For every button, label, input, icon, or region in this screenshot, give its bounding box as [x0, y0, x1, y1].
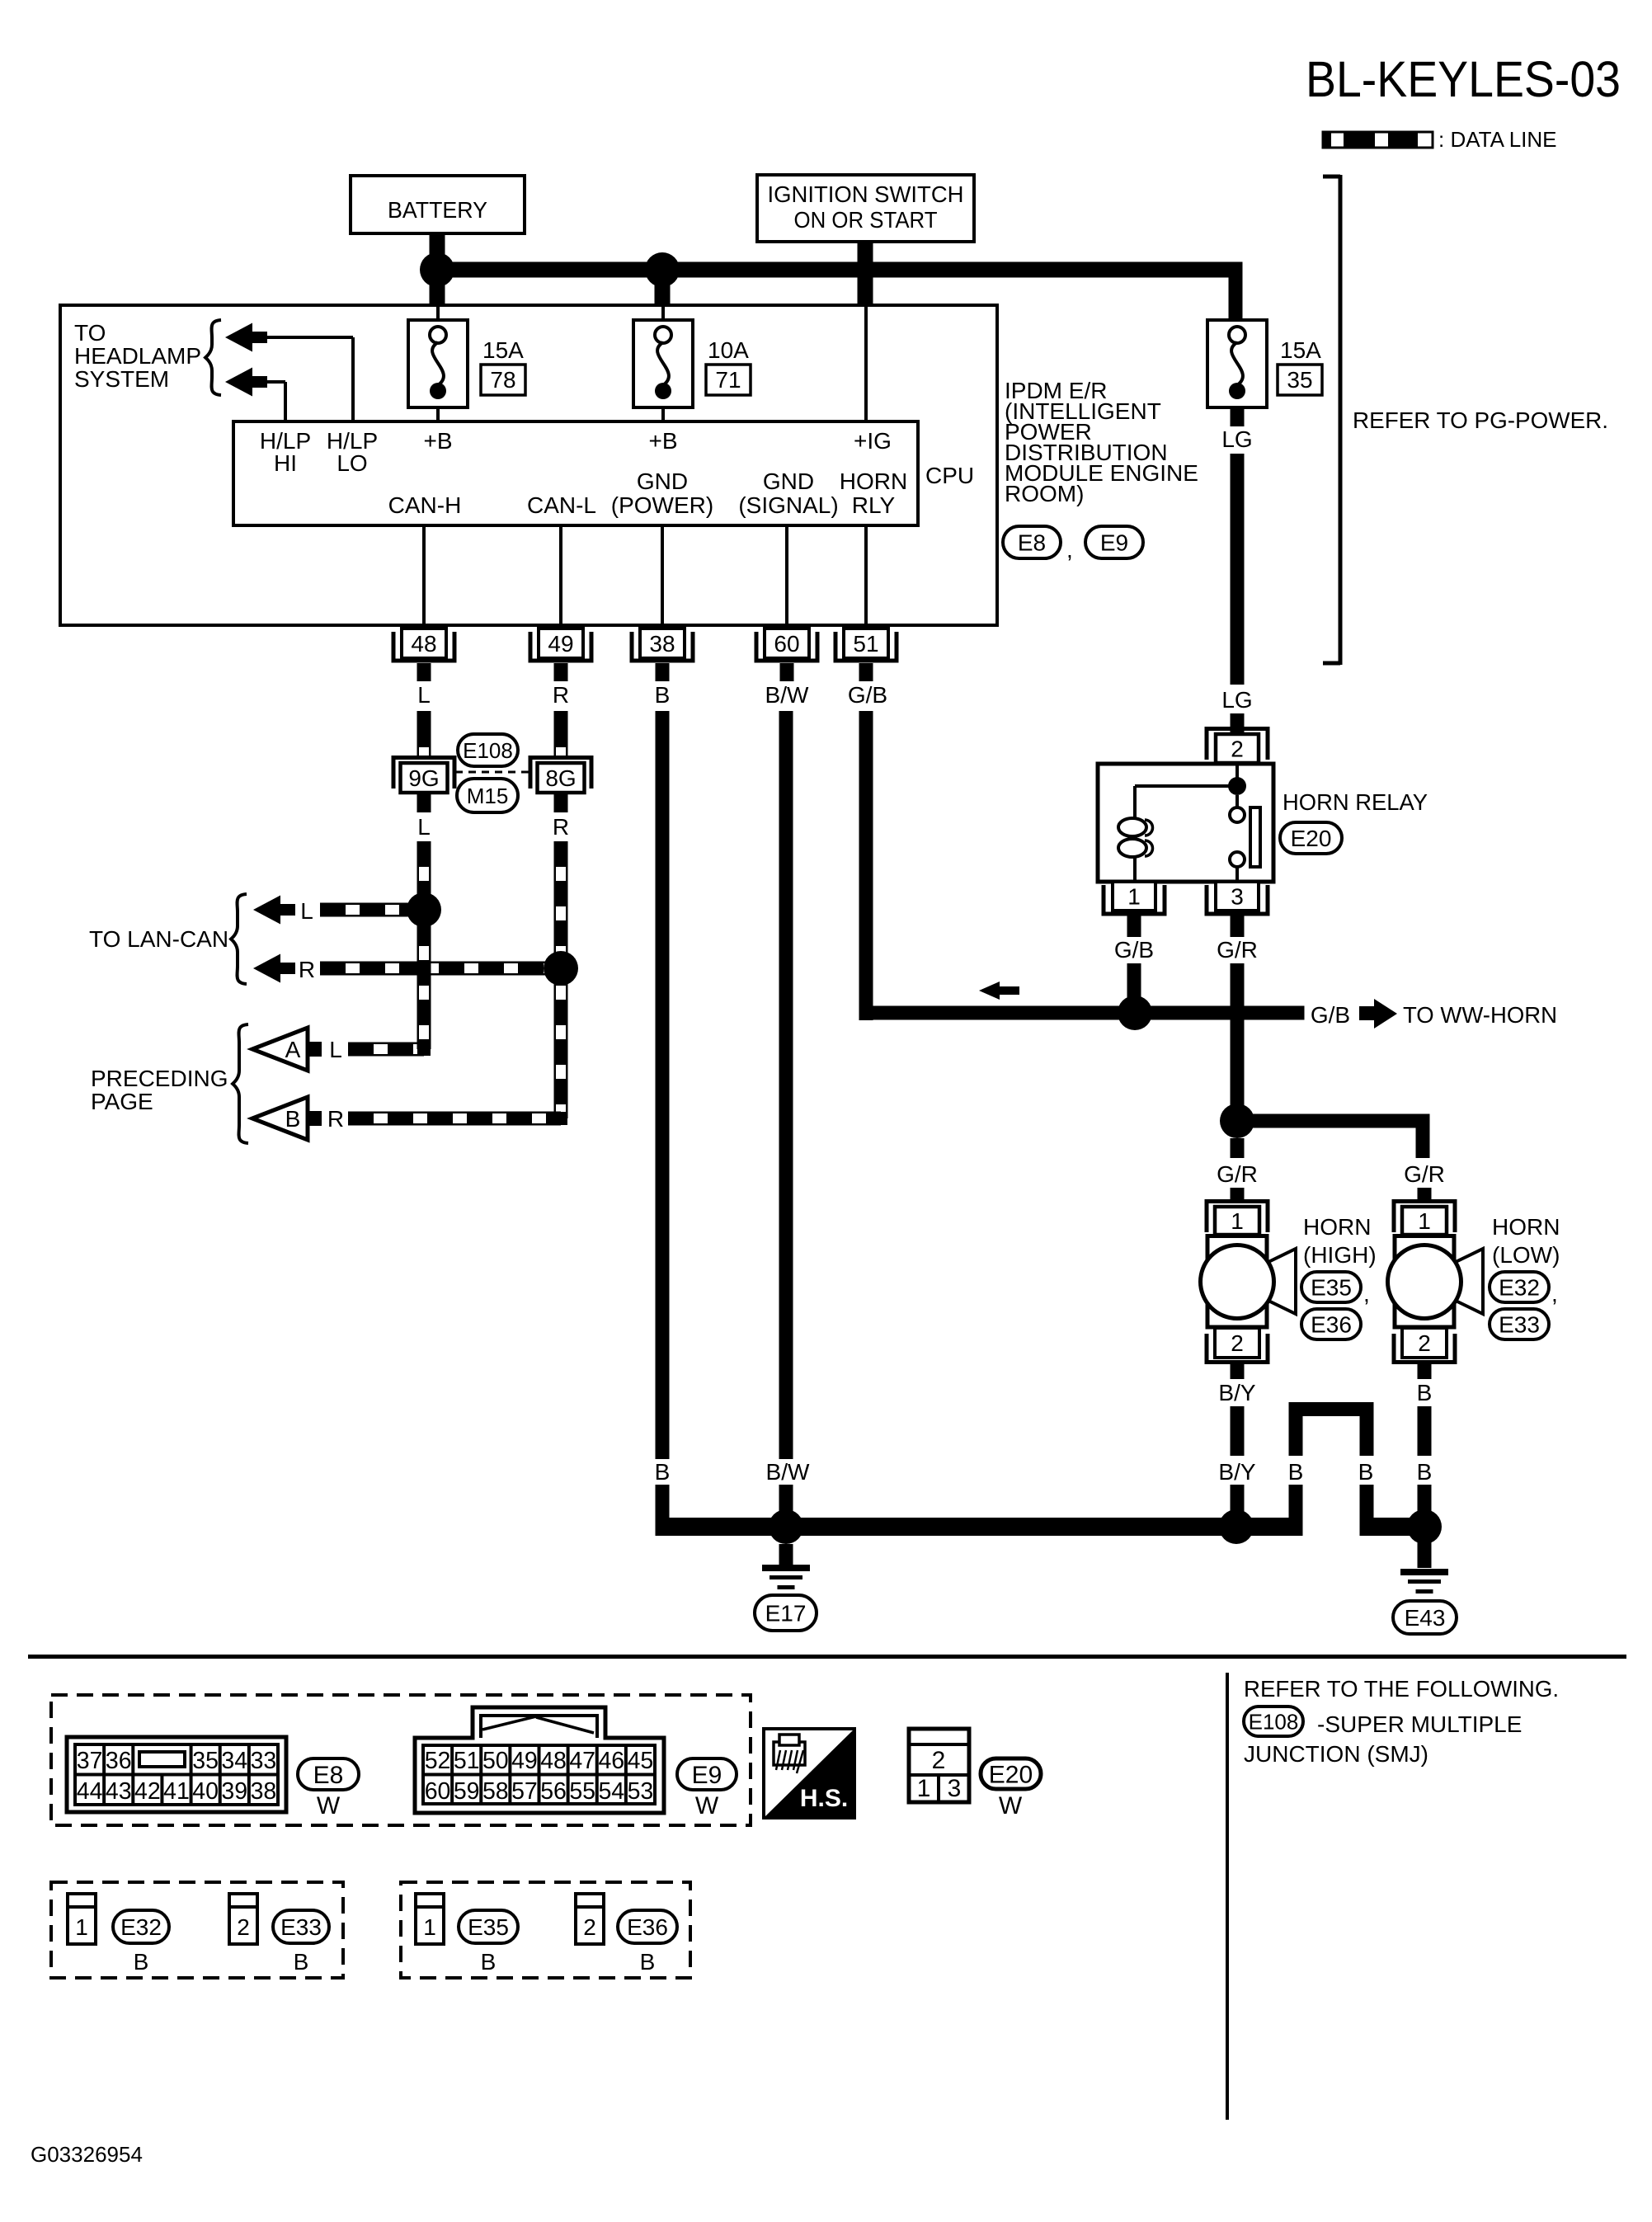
svg-text:R: R [553, 814, 569, 840]
svg-text:L: L [417, 682, 431, 708]
svg-text:53: 53 [628, 1778, 654, 1805]
svg-text:+B: +B [648, 428, 677, 454]
svg-text:+IG: +IG [854, 428, 892, 454]
svg-text:CPU: CPU [925, 463, 974, 488]
svg-text:LG: LG [1221, 687, 1252, 713]
svg-text:GND: GND [637, 468, 688, 494]
svg-text:B: B [655, 682, 671, 708]
svg-text:HEADLAMP: HEADLAMP [74, 343, 201, 369]
svg-text:SYSTEM: SYSTEM [74, 366, 169, 392]
svg-text:: DATA LINE: : DATA LINE [1438, 127, 1557, 152]
svg-text:G/R: G/R [1404, 1161, 1445, 1187]
svg-text:B: B [640, 1949, 656, 1975]
svg-text:50: 50 [482, 1748, 509, 1774]
svg-text:34: 34 [221, 1748, 247, 1774]
svg-text:HI: HI [274, 450, 297, 476]
svg-text:49: 49 [511, 1748, 538, 1774]
svg-text:JUNCTION (SMJ): JUNCTION (SMJ) [1244, 1741, 1428, 1767]
svg-text:HORN: HORN [1492, 1214, 1560, 1240]
svg-text:43: 43 [106, 1778, 132, 1805]
svg-text:A: A [285, 1037, 301, 1062]
svg-text:59: 59 [454, 1778, 480, 1805]
svg-text:15A: 15A [482, 337, 524, 363]
svg-text:33: 33 [251, 1748, 277, 1774]
svg-text:H.S.: H.S. [800, 1785, 848, 1812]
svg-text:45: 45 [628, 1748, 654, 1774]
svg-text:2: 2 [1418, 1330, 1431, 1356]
svg-text:E8: E8 [313, 1762, 344, 1789]
svg-text:(POWER): (POWER) [611, 492, 713, 518]
svg-text:3: 3 [1231, 884, 1244, 910]
svg-text:51: 51 [454, 1748, 480, 1774]
svg-text:G/B: G/B [848, 682, 887, 708]
svg-text:40: 40 [192, 1778, 219, 1805]
svg-text:CAN-H: CAN-H [388, 492, 462, 518]
svg-text:2: 2 [932, 1747, 946, 1774]
svg-text:37: 37 [77, 1748, 103, 1774]
svg-text:1: 1 [423, 1914, 436, 1940]
svg-text:8G: 8G [545, 765, 576, 791]
svg-text:E20: E20 [1291, 826, 1332, 851]
svg-text:35: 35 [1287, 367, 1312, 393]
svg-text:(LOW): (LOW) [1492, 1242, 1560, 1268]
svg-text:GND: GND [763, 468, 814, 494]
svg-text:G03326954: G03326954 [31, 2142, 143, 2167]
svg-text:E20: E20 [989, 1761, 1033, 1788]
svg-text:1: 1 [1418, 1208, 1431, 1234]
svg-text:55: 55 [569, 1778, 595, 1805]
svg-text:B/W: B/W [766, 1459, 810, 1485]
svg-text:(HIGH): (HIGH) [1303, 1242, 1377, 1268]
svg-text:52: 52 [425, 1748, 451, 1774]
svg-text:47: 47 [569, 1748, 595, 1774]
svg-text:2: 2 [583, 1914, 596, 1940]
svg-text:W: W [317, 1792, 341, 1819]
svg-text:W: W [695, 1792, 719, 1819]
svg-text:,: , [1363, 1281, 1370, 1306]
svg-text:57: 57 [511, 1778, 538, 1805]
svg-text:56: 56 [540, 1778, 567, 1805]
svg-text:38: 38 [649, 631, 675, 657]
svg-text:L: L [329, 1037, 342, 1062]
svg-text:HORN: HORN [1303, 1214, 1371, 1240]
svg-text:B: B [1358, 1459, 1374, 1485]
svg-text:B: B [655, 1459, 671, 1485]
svg-text:REFER TO THE FOLLOWING.: REFER TO THE FOLLOWING. [1244, 1676, 1559, 1702]
svg-text:41: 41 [163, 1778, 190, 1805]
svg-text:REFER TO PG-POWER.: REFER TO PG-POWER. [1353, 407, 1608, 433]
svg-text:,: , [1066, 537, 1073, 563]
svg-text:M15: M15 [467, 784, 509, 808]
svg-text:2: 2 [1231, 737, 1244, 762]
svg-text:IGNITION SWITCH: IGNITION SWITCH [768, 181, 964, 207]
svg-text:CAN-L: CAN-L [527, 492, 596, 518]
svg-text:3: 3 [948, 1775, 962, 1802]
svg-text:TO LAN-CAN: TO LAN-CAN [89, 926, 228, 952]
svg-text:B: B [481, 1949, 497, 1975]
svg-text:BATTERY: BATTERY [388, 197, 487, 223]
svg-text:LO: LO [337, 450, 367, 476]
svg-text:48: 48 [411, 631, 436, 657]
svg-text:E36: E36 [1311, 1312, 1352, 1338]
svg-text:39: 39 [221, 1778, 247, 1805]
svg-text:10A: 10A [708, 337, 749, 363]
svg-text:E36: E36 [627, 1914, 668, 1940]
svg-text:E35: E35 [468, 1914, 509, 1940]
svg-text:R: R [327, 1106, 344, 1132]
svg-text:E32: E32 [120, 1914, 162, 1940]
svg-text:51: 51 [853, 631, 878, 657]
svg-text:BL-KEYLES-03: BL-KEYLES-03 [1306, 51, 1621, 107]
svg-text:42: 42 [134, 1778, 161, 1805]
svg-text:15A: 15A [1280, 337, 1321, 363]
svg-text:ROOM): ROOM) [1005, 481, 1084, 506]
svg-text:E43: E43 [1405, 1605, 1446, 1631]
svg-text:35: 35 [192, 1748, 219, 1774]
svg-text:E9: E9 [692, 1762, 722, 1789]
svg-text:46: 46 [598, 1748, 624, 1774]
svg-text:1: 1 [75, 1914, 88, 1940]
svg-text:W: W [999, 1792, 1023, 1819]
svg-text:44: 44 [77, 1778, 103, 1805]
svg-text:ON OR START: ON OR START [794, 207, 938, 233]
svg-text:B: B [1417, 1380, 1433, 1405]
svg-text:,: , [1551, 1281, 1558, 1306]
svg-text:B: B [294, 1949, 309, 1975]
svg-text:B: B [1288, 1459, 1304, 1485]
svg-text:B/W: B/W [765, 682, 809, 708]
svg-text:60: 60 [774, 631, 799, 657]
svg-text:E33: E33 [280, 1914, 322, 1940]
svg-text:B/Y: B/Y [1218, 1459, 1255, 1485]
svg-text:E35: E35 [1311, 1275, 1352, 1301]
svg-text:G/B: G/B [1114, 937, 1154, 963]
svg-text:TO WW-HORN: TO WW-HORN [1403, 1002, 1557, 1028]
svg-text:HORN RELAY: HORN RELAY [1283, 789, 1428, 815]
svg-text:L: L [417, 814, 431, 840]
svg-text:TO: TO [74, 320, 106, 346]
svg-text:58: 58 [482, 1778, 509, 1805]
svg-text:E108: E108 [463, 738, 513, 763]
svg-text:G/B: G/B [1311, 1002, 1350, 1028]
svg-text:PRECEDING: PRECEDING [91, 1066, 228, 1091]
svg-text:-SUPER MULTIPLE: -SUPER MULTIPLE [1317, 1711, 1522, 1737]
svg-text:E17: E17 [765, 1601, 807, 1626]
svg-text:1: 1 [1231, 1208, 1244, 1234]
svg-text:48: 48 [540, 1748, 567, 1774]
svg-text:38: 38 [251, 1778, 277, 1805]
svg-text:L: L [300, 898, 313, 924]
svg-text:E33: E33 [1499, 1312, 1540, 1338]
svg-text:49: 49 [548, 631, 573, 657]
svg-text:1: 1 [1127, 884, 1141, 910]
svg-text:2: 2 [237, 1914, 250, 1940]
svg-text:E9: E9 [1100, 530, 1128, 556]
svg-text:B: B [134, 1949, 149, 1975]
svg-text:E32: E32 [1499, 1275, 1540, 1301]
svg-text:9G: 9G [408, 765, 439, 791]
svg-text:B: B [1417, 1459, 1433, 1485]
svg-text:R: R [553, 682, 569, 708]
svg-text:36: 36 [106, 1748, 132, 1774]
svg-text:1: 1 [917, 1775, 931, 1802]
svg-text:+B: +B [423, 428, 452, 454]
svg-text:G/R: G/R [1217, 937, 1258, 963]
svg-text:54: 54 [598, 1778, 624, 1805]
svg-text:R: R [299, 957, 315, 982]
svg-text:HORN: HORN [840, 468, 907, 494]
svg-text:E8: E8 [1018, 530, 1046, 556]
svg-text:(SIGNAL): (SIGNAL) [738, 492, 838, 518]
svg-text:71: 71 [715, 367, 741, 393]
svg-text:78: 78 [490, 367, 515, 393]
svg-text:RLY: RLY [852, 492, 896, 518]
svg-text:60: 60 [425, 1778, 451, 1805]
svg-text:2: 2 [1231, 1330, 1244, 1356]
svg-text:B/Y: B/Y [1218, 1380, 1255, 1405]
svg-text:G/R: G/R [1217, 1161, 1258, 1187]
svg-text:LG: LG [1221, 426, 1252, 452]
svg-text:B: B [285, 1106, 301, 1132]
svg-text:PAGE: PAGE [91, 1089, 153, 1114]
svg-text:E108: E108 [1249, 1709, 1299, 1734]
